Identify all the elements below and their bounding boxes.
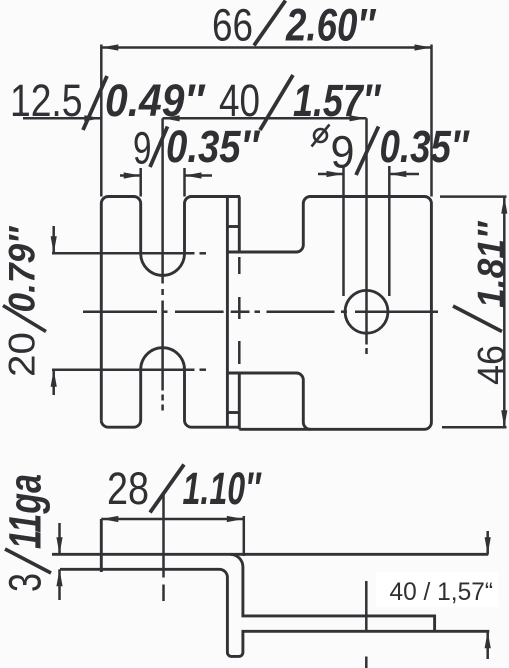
svg-text:3: 3 — [0, 573, 51, 592]
svg-text:1.81″: 1.81″ — [471, 220, 509, 308]
svg-text:46: 46 — [471, 345, 509, 385]
svg-text:12.5: 12.5 — [10, 75, 83, 126]
svg-text:0.79″: 0.79″ — [2, 225, 43, 313]
svg-text:40: 40 — [219, 75, 260, 126]
svg-text:1.57″: 1.57″ — [293, 75, 382, 126]
svg-text:40 / 1,57“: 40 / 1,57“ — [390, 578, 494, 606]
svg-text:2.60″: 2.60″ — [285, 0, 377, 51]
svg-text:9: 9 — [331, 127, 355, 178]
svg-text:0.35″: 0.35″ — [380, 121, 471, 172]
svg-text:66: 66 — [212, 0, 253, 51]
svg-text:11ga: 11ga — [0, 474, 51, 549]
svg-text:0.35″: 0.35″ — [166, 121, 261, 172]
svg-text:0.49″: 0.49″ — [105, 75, 206, 126]
svg-text:1.10″: 1.10″ — [183, 463, 263, 514]
svg-text:9: 9 — [133, 123, 152, 174]
svg-text:28: 28 — [107, 463, 149, 514]
svg-text:20: 20 — [2, 332, 43, 377]
